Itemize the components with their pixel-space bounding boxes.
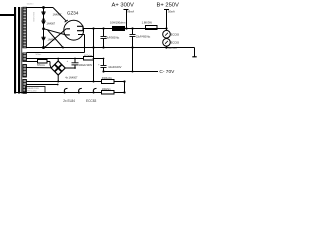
svg-text:PRI 0-230: PRI 0-230	[27, 91, 37, 93]
svg-text:1.8K/3W: 1.8K/3W	[142, 20, 153, 24]
svg-text:22uF/500Vdc: 22uF/500Vdc	[105, 36, 120, 39]
svg-text:1N4007: 1N4007	[46, 22, 55, 25]
svg-text:GZ34: GZ34	[67, 11, 79, 16]
svg-text:330Kohm: 330Kohm	[102, 77, 112, 80]
svg-text:10uF/100V: 10uF/100V	[108, 65, 121, 69]
svg-text:50mA: 50mA	[168, 10, 175, 14]
svg-text:330-0-330: 330-0-330	[32, 12, 34, 22]
svg-text:A+ 300V: A+ 300V	[112, 2, 135, 8]
svg-text:ECC83: ECC83	[86, 99, 97, 103]
svg-text:4K7ohm: 4K7ohm	[84, 55, 92, 57]
svg-text:ECC83: ECC83	[171, 41, 180, 44]
svg-text:50Vac: 50Vac	[36, 54, 42, 56]
svg-text:ECC83: ECC83	[171, 33, 180, 36]
svg-text:4x 1N4007: 4x 1N4007	[65, 76, 78, 79]
svg-text:100ohm: 100ohm	[102, 88, 111, 91]
svg-text:to GND bus: to GND bus	[165, 47, 177, 50]
svg-text:50Vrms: 50Vrms	[37, 64, 46, 67]
svg-text:10H/100ohm: 10H/100ohm	[110, 20, 126, 24]
svg-text:C- 70V: C- 70V	[159, 69, 175, 75]
svg-text:100uF/100V: 100uF/100V	[79, 64, 93, 67]
svg-text:99mA: 99mA	[127, 10, 134, 14]
svg-text:650Vct: 650Vct	[27, 3, 34, 6]
svg-text:2x EL84: 2x EL84	[63, 99, 75, 103]
svg-text:B+ 250V: B+ 250V	[157, 2, 180, 8]
svg-text:22uF/450Vdc: 22uF/450Vdc	[136, 35, 151, 38]
